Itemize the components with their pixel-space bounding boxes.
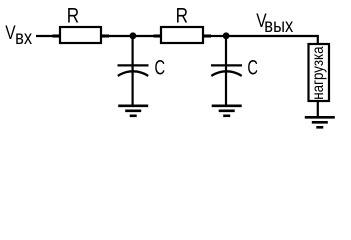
resistor R2 xyxy=(154,27,212,43)
svg-text:вх: вх xyxy=(15,27,32,48)
wire: load to ground xyxy=(317,101,319,117)
svg-text:R: R xyxy=(176,4,188,28)
label C of C1 xyxy=(155,55,166,80)
resistor R1 xyxy=(53,27,110,43)
node B (junction dot) xyxy=(223,32,230,39)
label нагрузка (rotated) xyxy=(310,46,327,100)
svg-text:C: C xyxy=(155,55,166,80)
svg-text:нагрузка: нагрузка xyxy=(310,46,327,100)
node A (junction dot) xyxy=(130,32,137,39)
ground under C2 xyxy=(212,106,242,116)
label Vвх (input voltage) xyxy=(5,22,16,44)
ground under C1 xyxy=(118,106,148,116)
wire: node A to R2 xyxy=(133,35,155,37)
label Vвых (output voltage) xyxy=(256,10,267,32)
wire: R1 to node A xyxy=(108,35,133,37)
capacitor C1 xyxy=(118,36,149,106)
load box (нагрузка) xyxy=(309,44,330,101)
svg-text:R: R xyxy=(67,4,79,28)
ground under load xyxy=(305,117,335,127)
wire: Vвх to R1 xyxy=(36,35,54,37)
capacitor C2 xyxy=(211,36,242,106)
svg-text:C: C xyxy=(247,55,258,80)
label C of C2 xyxy=(247,55,258,80)
svg-text:вых: вых xyxy=(264,15,293,36)
wire: R2 to node B xyxy=(210,35,226,37)
label R of R2 xyxy=(176,4,188,28)
wire: node B to load (with corner down) xyxy=(226,36,318,44)
label R of R1 xyxy=(67,4,79,28)
